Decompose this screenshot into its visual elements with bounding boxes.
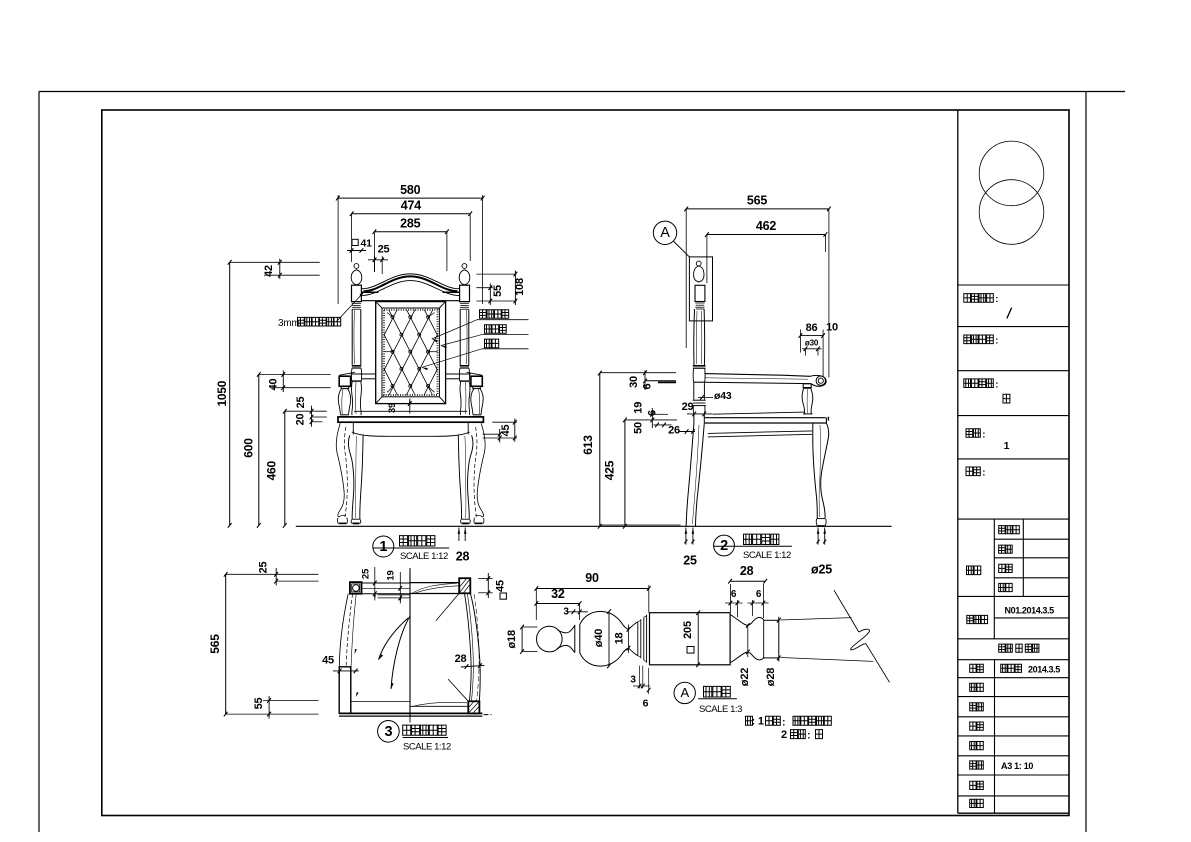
svg-text:3: 3 xyxy=(384,724,392,740)
dim 42 line and text xyxy=(263,259,282,280)
front view apron curve xyxy=(352,432,470,436)
detail callout circle A xyxy=(653,221,689,257)
svg-text:10: 10 xyxy=(826,322,838,334)
svg-text::: : xyxy=(995,380,998,391)
svg-text:42: 42 xyxy=(263,265,275,277)
svg-text:28: 28 xyxy=(455,653,467,665)
svg-text::: : xyxy=(782,717,785,728)
svg-text:2014.3.5: 2014.3.5 xyxy=(1028,664,1060,674)
dim 45 right of seat front view xyxy=(483,419,517,443)
dim 462 extension lines xyxy=(707,235,826,284)
svg-text:2: 2 xyxy=(781,729,787,741)
label spec 规格 xyxy=(966,467,985,479)
dim 25 under rear foot xyxy=(683,528,697,568)
svg-text:3mm: 3mm xyxy=(278,318,300,329)
front view caption title 正立面图 xyxy=(373,536,450,562)
front view rails below seat xyxy=(353,422,468,434)
svg-text:41: 41 xyxy=(361,238,373,250)
side view rear leg xyxy=(686,414,704,526)
label check 校核 xyxy=(970,722,984,730)
svg-text:86: 86 xyxy=(806,322,818,334)
dim 613 vertical line xyxy=(598,371,602,529)
side view finial in detail box xyxy=(694,261,705,309)
front view crest rail arch xyxy=(361,274,459,301)
plan view top-right corner block hatched xyxy=(459,578,470,593)
front view left finial xyxy=(351,264,362,310)
dim phi18 line xyxy=(506,625,538,654)
dim square 41 symbol and text xyxy=(352,238,372,250)
dim 19 25 plan top ticks xyxy=(361,567,403,603)
plan view left arm and leg curves xyxy=(339,594,358,713)
svg-text:32: 32 xyxy=(551,587,565,601)
title block row lines xyxy=(958,285,1069,796)
plan view top rail left half xyxy=(362,583,411,598)
svg-text:25: 25 xyxy=(295,397,307,409)
label project name 工程名称 xyxy=(964,294,998,306)
detail square section 205 xyxy=(650,613,731,665)
svg-text:6: 6 xyxy=(643,698,649,710)
label product name 产品名称 xyxy=(964,379,998,391)
title block logo circle upper xyxy=(979,141,1044,206)
dim 30 and 6 arm ticks xyxy=(628,370,676,390)
svg-text:ø18: ø18 xyxy=(506,630,518,648)
dim phi28 line xyxy=(765,618,781,686)
svg-text:1: 1 xyxy=(1004,440,1010,452)
plan view break dash-dot line xyxy=(484,714,492,716)
back panel inner frame xyxy=(382,308,439,397)
side view caption circle 2 xyxy=(714,535,735,556)
dim 474 extension lines xyxy=(352,214,471,262)
front view right arm baluster B xyxy=(460,381,470,415)
title block logo circle lower xyxy=(979,180,1044,245)
svg-text::: : xyxy=(982,429,985,440)
front view right back post xyxy=(459,309,469,381)
dim 285 line xyxy=(373,229,449,234)
dim 3 ticks near collar xyxy=(563,604,588,621)
svg-text:20: 20 xyxy=(295,414,307,426)
label draft 制图 xyxy=(970,683,984,691)
svg-text:SCALE 1:12: SCALE 1:12 xyxy=(400,551,448,562)
svg-text:580: 580 xyxy=(400,183,421,197)
front view rear-left leg behind xyxy=(336,423,347,523)
dim 41 line xyxy=(347,248,366,253)
plan view seat sweep curves xyxy=(379,616,411,689)
svg-text:28: 28 xyxy=(456,550,470,564)
label foam leather 海绵扣皮 with underline xyxy=(477,310,529,320)
leader line for groove label xyxy=(336,291,365,322)
svg-text:45: 45 xyxy=(500,425,512,437)
front view left arm baluster B xyxy=(351,381,361,415)
front view left back post xyxy=(351,309,361,381)
side view front leg xyxy=(813,423,829,526)
note line 2 quantity 件 xyxy=(781,729,823,742)
front view front-left cabriole leg xyxy=(348,435,363,524)
dim 28 under front right leg xyxy=(456,528,470,564)
plan view top rail right half section xyxy=(410,583,459,594)
side view side apron rails xyxy=(708,431,812,437)
dim 205 line inside square xyxy=(682,610,700,667)
svg-text:474: 474 xyxy=(401,199,422,213)
detail vase profile phi40 xyxy=(580,611,629,666)
detail neck rings before square xyxy=(629,615,647,663)
label color 颜色 xyxy=(999,564,1013,572)
dim 6 and 6 cove ticks xyxy=(725,584,769,618)
front view right arm baluster A xyxy=(471,389,483,417)
label design 设计 xyxy=(970,664,984,672)
svg-text:45: 45 xyxy=(322,655,334,667)
svg-text:ø43: ø43 xyxy=(714,390,732,402)
dim phi22 line xyxy=(739,623,751,686)
square symbol inside section xyxy=(687,647,694,654)
svg-text:ø28: ø28 xyxy=(765,668,777,686)
plan view left armrest rectangle xyxy=(339,667,351,713)
detail leg break lines xyxy=(781,590,890,682)
dim 90 line xyxy=(534,571,650,591)
dim 580 extension lines xyxy=(338,195,482,304)
dim 565 plan vertical line xyxy=(224,572,228,716)
dim 1050 extension lines xyxy=(230,262,320,275)
dim 613 extension lines xyxy=(600,373,681,525)
svg-text::: : xyxy=(982,468,985,479)
label veneer 木皮 xyxy=(999,545,1013,553)
svg-text:6: 6 xyxy=(647,410,659,416)
dim 565 plan extension lines xyxy=(226,574,319,714)
back panel outer frame xyxy=(376,302,446,404)
svg-text:SCALE 1:3: SCALE 1:3 xyxy=(699,704,742,715)
svg-text:6: 6 xyxy=(756,589,762,600)
dim 45 plan top-right block xyxy=(478,573,506,598)
svg-text:460: 460 xyxy=(265,460,279,480)
dim 1050 vertical line xyxy=(228,260,232,528)
svg-text:565: 565 xyxy=(208,634,222,654)
svg-text:: 1: : 1 xyxy=(752,716,764,728)
value designer and date 唐春林 2014.3.5 xyxy=(1001,664,1022,672)
title block vertical dividers xyxy=(994,519,1023,813)
inner drawing frame xyxy=(102,110,1069,816)
svg-text:462: 462 xyxy=(756,219,777,233)
detail neck curves xyxy=(557,626,575,653)
value slash / xyxy=(1007,308,1012,319)
outer border right edge xyxy=(1085,92,1087,833)
svg-text:613: 613 xyxy=(581,435,595,455)
dim 28 top line xyxy=(728,564,767,584)
detail caption title 大样图 xyxy=(698,686,742,715)
front view seat cushion line xyxy=(354,410,467,412)
detail end cylinder phi28 xyxy=(764,617,779,662)
dim 460 top extension line xyxy=(285,410,327,412)
svg-text:6: 6 xyxy=(731,589,737,600)
svg-text:425: 425 xyxy=(603,460,617,480)
dim 25 and 20 seat ticks xyxy=(295,397,327,427)
dim 565 extension lines xyxy=(686,209,829,378)
svg-text:108: 108 xyxy=(514,278,526,296)
front view caption circle 1 xyxy=(373,536,394,557)
svg-text:25: 25 xyxy=(361,568,372,579)
dim 25 ticks xyxy=(368,256,388,274)
svg-text:25: 25 xyxy=(378,244,390,256)
svg-text:40: 40 xyxy=(268,379,280,391)
svg-text:600: 600 xyxy=(242,438,256,458)
front view left arm baluster A xyxy=(338,389,350,417)
label drawing no 图号 xyxy=(970,799,984,807)
plan view centre section line xyxy=(409,568,411,722)
title block left edge xyxy=(957,110,959,813)
detail collar rings xyxy=(575,624,580,653)
front view left armrest xyxy=(339,372,376,388)
svg-text:26: 26 xyxy=(668,425,680,437)
dim phi43 text and leader xyxy=(698,390,732,402)
svg-text:ø30: ø30 xyxy=(805,339,819,348)
dim phi40 line xyxy=(593,609,611,668)
side view caption title 侧立面图 xyxy=(713,534,792,561)
label craft 工艺 xyxy=(970,703,984,711)
svg-text:55: 55 xyxy=(253,698,265,710)
dim 600 vertical line xyxy=(257,372,261,528)
side view armrest xyxy=(704,374,810,384)
front view rear-right leg behind xyxy=(474,423,485,523)
svg-text:SCALE 1:12: SCALE 1:12 xyxy=(403,742,451,753)
plan view corner brace diagonals xyxy=(436,593,468,701)
dim phi25 under front foot xyxy=(811,528,832,577)
svg-text::: : xyxy=(995,294,998,305)
side view seat cushion line xyxy=(712,412,804,414)
dim 39 below panel xyxy=(387,399,412,414)
title block bottom edge xyxy=(958,812,1069,814)
svg-text:A: A xyxy=(680,685,689,700)
dim 45 plan left armrest xyxy=(322,655,359,674)
svg-text:25: 25 xyxy=(258,562,270,574)
label 3mm half-round groove 3mm宽半圆凹线 xyxy=(278,317,341,329)
svg-text:205: 205 xyxy=(682,621,694,639)
outer border top edge xyxy=(39,91,1125,93)
dim 28 plan right stile xyxy=(455,653,485,669)
label main material 主材质 xyxy=(999,526,1020,534)
svg-text:50: 50 xyxy=(633,422,645,434)
label scale 比例 xyxy=(970,761,984,769)
dim 29 line and text xyxy=(682,401,712,416)
svg-text:19: 19 xyxy=(633,402,645,414)
svg-text:1050: 1050 xyxy=(215,380,229,406)
label project area 工程区域 xyxy=(964,335,998,347)
label order no 单号 xyxy=(970,781,984,789)
header signature and date 签名 及 日期 xyxy=(999,644,1039,652)
svg-text:ø22: ø22 xyxy=(739,668,751,686)
svg-text:285: 285 xyxy=(400,217,421,231)
front view seat board xyxy=(338,417,483,422)
svg-text:25: 25 xyxy=(683,554,697,568)
front view front-right cabriole leg xyxy=(458,435,473,524)
outer border left edge xyxy=(38,92,40,833)
dim 55 crest ticks xyxy=(476,274,516,305)
dim 565 line xyxy=(684,207,830,212)
dim 86 line and text xyxy=(799,322,825,377)
side view seat board xyxy=(705,417,829,423)
front view right finial xyxy=(459,264,470,310)
svg-text:90: 90 xyxy=(585,571,599,585)
dim 580 line xyxy=(336,196,485,201)
dim 19 6 50 ticks cluster xyxy=(633,402,672,434)
svg-text:19: 19 xyxy=(386,570,397,580)
dim 462 line xyxy=(705,232,827,237)
svg-text:28: 28 xyxy=(740,564,754,578)
dim 425 top extension line xyxy=(625,419,677,421)
svg-text:ø40: ø40 xyxy=(593,629,605,647)
svg-text:1: 1 xyxy=(379,539,387,555)
svg-text:55: 55 xyxy=(492,285,504,297)
detail ball profile xyxy=(537,626,563,652)
svg-text:SCALE 1:12: SCALE 1:12 xyxy=(743,550,791,561)
dim 18 neck xyxy=(614,625,631,654)
dim 425 vertical line xyxy=(623,418,627,529)
plan view caption title 半剖平面图 xyxy=(403,725,451,752)
label material 材质 xyxy=(967,566,981,575)
note line 1 material 缅甸樱桃木 xyxy=(746,716,832,729)
dim 600 extension lines xyxy=(259,374,331,387)
title block material sub-row lines xyxy=(994,539,1069,618)
side view back post xyxy=(693,309,706,414)
back panel piping dotted border xyxy=(384,310,438,395)
side view arm support baluster xyxy=(802,384,813,414)
value chair 椅 xyxy=(1003,394,1010,403)
svg-text:565: 565 xyxy=(747,194,768,208)
dim 90 extension lines xyxy=(536,585,649,620)
leader arrows from labels to back panel xyxy=(422,320,482,370)
dim 108 line and text xyxy=(514,271,526,306)
detail caption circle A xyxy=(674,682,695,703)
svg-text:ø25: ø25 xyxy=(811,563,832,577)
dim 3 bottom left ticks xyxy=(630,666,650,689)
svg-text:6: 6 xyxy=(642,383,654,389)
plan view right stile curves xyxy=(465,593,481,701)
dim 25 plan top-left xyxy=(258,562,319,586)
label version 版本号 xyxy=(967,615,988,623)
back panel mitre corners xyxy=(376,302,446,404)
dim 40 line and text xyxy=(268,371,286,393)
square symbol plan top-right xyxy=(500,593,506,599)
dim 26 ticks xyxy=(668,425,695,437)
label copper nail 打铜钉 with underline xyxy=(482,325,529,335)
plan view caption circle 3 xyxy=(378,721,400,743)
ground line under both views xyxy=(296,525,892,527)
back panel tufting lattice xyxy=(384,310,438,395)
svg-text:A: A xyxy=(660,225,670,241)
detail box on back post xyxy=(689,257,712,321)
svg-text:45: 45 xyxy=(495,580,507,592)
svg-text::: : xyxy=(995,336,998,347)
dim 460 vertical line xyxy=(283,409,287,528)
label approve 批准 xyxy=(970,742,984,750)
plan view bottom-right corner block hatched xyxy=(468,701,479,713)
dim 285 extension lines xyxy=(374,232,447,272)
dim 32 line xyxy=(534,587,581,606)
dim phi30 ticks xyxy=(802,339,822,356)
plan view bottom rail xyxy=(339,702,482,717)
svg-text:30: 30 xyxy=(628,376,640,388)
svg-text::: : xyxy=(807,731,810,742)
label pull button 拉扣 with underline xyxy=(482,339,529,349)
label quantity 数量 xyxy=(966,429,985,441)
plan view top-left corner post block xyxy=(350,582,362,594)
svg-text:18: 18 xyxy=(614,633,626,645)
svg-text:N01.2014.3.5: N01.2014.3.5 xyxy=(1005,605,1055,615)
dim 55 plan bottom-left xyxy=(253,696,319,719)
label trim 袖材 xyxy=(999,583,1013,591)
front view right armrest xyxy=(446,372,483,388)
svg-text:29: 29 xyxy=(682,401,694,413)
dim 6 bottom ticks xyxy=(643,668,651,710)
svg-text:A3 1: 10: A3 1: 10 xyxy=(1001,761,1033,771)
detail right coves and bead xyxy=(730,615,764,663)
side view armrest volute xyxy=(810,375,826,386)
svg-text:3: 3 xyxy=(630,675,636,686)
dim 474 line xyxy=(350,211,472,216)
